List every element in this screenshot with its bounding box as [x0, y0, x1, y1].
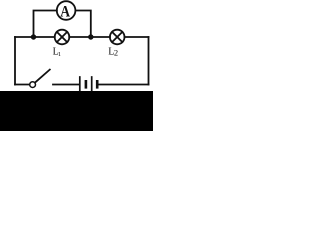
- svg-text:L2: L2: [108, 46, 118, 57]
- svg-text:A: A: [60, 3, 70, 20]
